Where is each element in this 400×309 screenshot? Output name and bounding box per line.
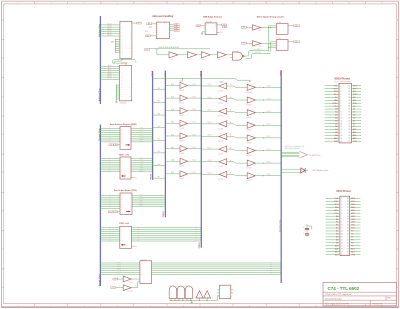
wires U7 outputs to bus B: [132, 194, 166, 207]
svg-text:A10: A10: [334, 137, 337, 140]
bundle collector chevron: [299, 151, 307, 158]
wire driver column 3 row 0 to bus D: [255, 86, 281, 88]
wire U4 lower output stub: [217, 32, 223, 34]
svg-text:NMI: NMI: [335, 207, 339, 209]
svg-text:1Y [18]: 1Y [18]: [192, 84, 197, 86]
svg-text:11: 11: [341, 228, 343, 230]
svg-text:38: 38: [348, 91, 350, 93]
value label row 7 column 2: [218, 179, 223, 181]
wires U9 inputs from Peripheral bus: [100, 262, 140, 276]
buffer gate row 6 column 1: [180, 157, 188, 164]
svg-text:35: 35: [348, 100, 350, 102]
svg-text:25: 25: [348, 129, 350, 131]
inverter G5: [201, 52, 210, 61]
value label 74LS373N under U2: [120, 102, 127, 104]
svg-text:IC15C: IC15C: [202, 59, 206, 61]
wire bus C to receiver row 1: [201, 97, 219, 99]
svg-text:PR6: PR6: [137, 238, 140, 240]
wire G7 input lower stub: [230, 57, 233, 59]
svg-text:DB2: DB2: [351, 213, 355, 215]
svg-text:18: 18: [340, 135, 342, 137]
svg-text:39: 39: [347, 201, 349, 203]
svg-text:+: +: [303, 232, 304, 234]
value label row 0 column 1: [179, 90, 184, 92]
bus C driver bus: [200, 71, 202, 248]
wire driver row 4 to bus C: [188, 134, 202, 136]
svg-text:16: 16: [340, 129, 342, 131]
svg-text:PBUS: PBUS: [150, 173, 152, 179]
svg-text:R/W: R/W: [353, 103, 357, 105]
svg-text:74LS04: 74LS04: [128, 282, 133, 284]
net label 6510 Data Bus vertical: [278, 219, 281, 232]
svg-text:33: 33: [347, 219, 349, 221]
wire PHI2 branch stub: [182, 79, 184, 81]
svg-text:P5 [16]: P5 [16]: [117, 271, 122, 273]
buffer gate row 4 column 1: [180, 132, 188, 139]
svg-text:6510 Data Bus: 6510 Data Bus: [278, 219, 281, 232]
IC U9 name label: [141, 259, 147, 261]
wire U8 enable stub with label: [131, 246, 137, 248]
svg-text:SO: SO: [353, 91, 356, 93]
svg-text:38: 38: [347, 204, 349, 206]
svg-text:Periph. Port: Periph. Port: [98, 274, 101, 286]
svg-text:21: 21: [347, 254, 349, 256]
svg-text:D0 [30]: D0 [30]: [266, 86, 271, 88]
section title DDR IO: [119, 154, 129, 157]
bus Peripheral BUS left segment: [99, 125, 101, 287]
clock arrow symbol U7: [126, 210, 130, 212]
wire receiver row 1 to driver column 3: [227, 96, 248, 100]
wire G8 output to U9: [131, 278, 140, 280]
wire bus C to receiver row 3: [201, 122, 219, 124]
value label row 6 column 1: [179, 166, 184, 168]
IC X6500 pinout body: [339, 83, 352, 143]
svg-text:25: 25: [347, 242, 349, 244]
wire bus C to receiver row 5: [201, 147, 219, 149]
wire L1 output to label: [288, 25, 293, 27]
svg-text:C: C: [277, 45, 278, 47]
wire vertical clock feed 2: [269, 42, 277, 52]
svg-text:A1: A1: [336, 218, 338, 221]
value label row 3 column 3: [246, 130, 251, 132]
svg-text:+: +: [303, 227, 304, 229]
svg-text:A6: A6: [336, 233, 338, 236]
label box AEC with wire to U3: [147, 22, 157, 25]
svg-text:74LS17N: 74LS17N: [218, 103, 223, 105]
wire bus B to driver row 1: [165, 95, 180, 98]
net label PHI2: [180, 81, 184, 83]
section title PDR IO: [119, 222, 129, 225]
wire bus C to receiver row 2: [201, 109, 219, 111]
value label row 2 column 1: [179, 115, 184, 117]
label box WR1 output: [293, 25, 299, 27]
svg-text:8B [10]: 8B [10]: [207, 173, 212, 175]
svg-text:OUT: OUT: [234, 290, 237, 292]
inverter G4: [188, 52, 197, 61]
svg-text:A8: A8: [335, 131, 337, 134]
svg-text:R/W: R/W: [351, 204, 355, 206]
buffer gate row 7 column 1: [180, 170, 188, 177]
driver gate row 7 column 3: [247, 172, 255, 179]
svg-text:10: 10: [340, 112, 342, 114]
svg-text:74LS17N: 74LS17N: [218, 128, 223, 130]
svg-text:9: 9: [282, 3, 283, 5]
wire receiver row 5 to driver column 3: [227, 146, 248, 150]
node column U2 tie-offs: [116, 85, 120, 100]
wire G9 output jog to U9: [131, 282, 140, 288]
ground symbol below U2: [115, 99, 117, 103]
svg-text:C74 - TTL 6502: C74 - TTL 6502: [328, 286, 360, 291]
svg-text:A12: A12: [353, 137, 356, 140]
svg-text:5: 5: [150, 3, 151, 5]
wire driver row 2 to bus C: [188, 109, 202, 111]
svg-text:16: 16: [341, 242, 343, 244]
buffer gate G1 write timing: [252, 25, 261, 32]
svg-text:DDR0: DDR0: [140, 157, 144, 159]
svg-text:1 2: 1 2: [170, 284, 172, 286]
bus C top label: [201, 70, 203, 76]
net label clock wire green: [159, 46, 180, 49]
svg-text:Port Output Status (POS): Port Output Status (POS): [114, 189, 137, 192]
wire bus B to driver row 0: [165, 83, 180, 86]
wire driver row 3 to bus C: [188, 122, 202, 124]
svg-text:3 4: 3 4: [178, 284, 180, 286]
value label row 3 column 1: [179, 128, 184, 130]
svg-text:22: 22: [347, 251, 349, 253]
section title 6500 Pinout: [335, 77, 351, 81]
pin label R/W U3: [145, 31, 149, 33]
svg-text:A9: A9: [336, 241, 338, 244]
svg-text:POS3: POS3: [139, 200, 143, 202]
svg-text:W1: W1: [110, 211, 112, 213]
wires U6 left from Peripheral bus: [100, 157, 120, 172]
net label Address Bus vertical: [98, 23, 101, 37]
svg-text:D: D: [277, 26, 278, 28]
frame bottom emphasis line: [2, 306, 399, 308]
svg-text:24: 24: [348, 132, 350, 134]
svg-text:D6 [24]: D6 [24]: [266, 161, 271, 163]
clock arrow symbol U6 left: [121, 175, 125, 177]
svg-text:P3 [14]: P3 [14]: [117, 267, 122, 269]
svg-text:19: 19: [340, 138, 342, 140]
svg-text:TITLE: C64 in TTL chips form: TITLE: C64 in TTL chips form: [325, 294, 351, 296]
svg-text:DDR6: DDR6: [140, 168, 144, 170]
svg-text:20: 20: [341, 254, 343, 256]
net label green clock net 1: [254, 48, 262, 51]
svg-text:74LS17N: 74LS17N: [218, 91, 223, 93]
pin labels 6510 left: [334, 198, 339, 256]
svg-text:PH: PH: [115, 144, 117, 146]
svg-text:RDY: RDY: [138, 23, 141, 25]
svg-text:PH2: PH2: [146, 49, 149, 51]
svg-text:26: 26: [348, 126, 350, 128]
buffer gate row 1 column 1: [180, 94, 188, 101]
buffer gate row 0 column 1: [180, 82, 188, 89]
svg-text:6B [12]: 6B [12]: [207, 147, 212, 149]
wire G5 to G6: [210, 54, 217, 56]
value label row 1 column 1: [179, 103, 184, 105]
svg-text:37: 37: [348, 94, 350, 96]
wires 6500 pinout right pin stubs: [352, 86, 362, 141]
receiver gate row 1 column 2: [219, 95, 227, 102]
svg-text:74LS04N: 74LS04N: [246, 92, 251, 94]
wires U10 right pins: [231, 290, 237, 293]
wire bus A to bus B row 7: [152, 175, 165, 178]
svg-text:IRQ: IRQ: [335, 204, 339, 206]
svg-text:39: 39: [348, 88, 350, 90]
wire bus B to driver row 2: [165, 108, 180, 111]
wire second feed to vertical pair: [246, 54, 271, 59]
svg-text:10: 10: [315, 3, 317, 5]
svg-text:12: 12: [340, 117, 342, 119]
svg-text:DB5: DB5: [351, 222, 355, 224]
svg-text:GND: GND: [111, 42, 114, 44]
svg-text:O: O: [229, 288, 230, 290]
capacitor C2 with wires: [303, 230, 309, 237]
wire bus A to bus B row 1: [152, 100, 165, 103]
buffer gate G2 write timing: [252, 41, 261, 48]
svg-text:Date: 2013-03-06 4:51 PM: Date: 2013-03-06 4:51 PM: [325, 303, 349, 306]
bus D top label: [281, 69, 283, 76]
wires U5 inputs from Peripheral bus: [100, 128, 120, 142]
driver gate row 5 column 3: [247, 146, 255, 153]
svg-text:7: 7: [216, 306, 217, 308]
value label row 4 column 2: [218, 141, 223, 143]
wire driver column 3 row 2 to bus D: [255, 111, 281, 113]
buffer gate G9 enable: [123, 284, 131, 291]
bus B bottom label: [163, 211, 165, 217]
svg-text:3B [15]: 3B [15]: [207, 109, 212, 111]
svg-text:PBUS: PBUS: [163, 211, 165, 217]
buffer gate G8 enable: [123, 275, 131, 282]
svg-text:5: 5: [150, 306, 151, 308]
receiver gate row 3 column 2: [219, 120, 227, 127]
svg-text:74LS07N: 74LS07N: [179, 166, 184, 168]
inverter G6: [217, 52, 226, 61]
wire L2 output to label: [288, 41, 293, 43]
svg-text:PBUS: PBUS: [152, 70, 154, 76]
svg-text:POS1: POS1: [139, 196, 143, 198]
svg-text:IC14C: IC14C: [258, 30, 262, 32]
wire G2 output to latch L2: [261, 43, 276, 44]
svg-text:SYNC: SYNC: [332, 103, 338, 105]
pin labels 6510 right: [351, 198, 356, 256]
svg-text:27: 27: [348, 123, 350, 125]
svg-text:A7: A7: [335, 128, 337, 131]
wire bus A to bus B row 2: [152, 112, 165, 115]
wire driver row 0 to bus C: [188, 84, 202, 86]
svg-text:D3 [27]: D3 [27]: [266, 124, 271, 126]
label box G9 input with wire: [111, 287, 124, 289]
svg-text:A9: A9: [335, 134, 337, 137]
wire drop to inverter chain: [157, 49, 169, 55]
section title Port Output Status POS: [114, 189, 137, 192]
svg-text:9: 9: [282, 306, 283, 308]
driver gate row 4 column 3: [247, 134, 255, 141]
svg-text:74LS04N: 74LS04N: [246, 117, 251, 119]
svg-text:NMI: NMI: [334, 100, 338, 102]
svg-text:5 6: 5 6: [186, 284, 188, 286]
svg-text:PR5: PR5: [137, 236, 140, 238]
wires 6500 pinout left pin stubs: [325, 86, 340, 141]
svg-text:PBUS: PBUS: [165, 70, 167, 76]
value label G9: [128, 291, 133, 293]
svg-text:A11: A11: [334, 140, 337, 143]
IC U4 name label: [206, 21, 213, 23]
svg-text:DB7: DB7: [351, 228, 355, 230]
svg-text:7: 7: [216, 3, 217, 5]
svg-text:6: 6: [183, 3, 184, 5]
svg-text:10: 10: [341, 225, 343, 227]
svg-text:A0: A0: [335, 108, 337, 111]
svg-text:74LS373N: 74LS373N: [121, 63, 128, 65]
wire G4 to G5: [197, 54, 202, 56]
bus A internal data bus: [152, 71, 154, 180]
receiver gate row 5 column 2: [219, 145, 227, 152]
svg-text:IC16B: IC16B: [234, 62, 238, 64]
svg-text:IRQ: IRQ: [334, 94, 338, 96]
svg-text:D6: D6: [353, 123, 355, 125]
label box W1 input with wire to G1: [242, 26, 253, 28]
svg-text:4Y [15]: 4Y [15]: [192, 122, 197, 124]
IC U7 port output register: [120, 193, 132, 215]
pin stub marks near row1: [220, 81, 251, 83]
svg-text:6500 Pinout: 6500 Pinout: [335, 77, 351, 81]
pin header P1 dome: [169, 284, 177, 298]
svg-text:P6 [17]: P6 [17]: [117, 273, 122, 275]
svg-text:A11: A11: [335, 247, 338, 250]
wires IC U1 inputs from Address Bus: [100, 22, 120, 36]
title row Document Number: [325, 297, 343, 300]
svg-text:Q: Q: [286, 42, 287, 44]
wires U7 inputs from Peripheral bus: [100, 194, 120, 209]
IC U10 oscillator: [219, 285, 231, 299]
wire bus A to bus B row 3: [152, 125, 165, 128]
svg-text:74LS17N: 74LS17N: [218, 179, 223, 181]
svg-text:28: 28: [348, 120, 350, 122]
svg-text:74LS04N: 74LS04N: [246, 142, 251, 144]
wire driver row 6 to bus C: [188, 160, 202, 162]
svg-text:DB1: DB1: [351, 210, 355, 212]
IC L1 timing latch upper: [276, 21, 288, 34]
IC U4 NMI edge detector flip-flop: [205, 23, 217, 35]
svg-text:74LS04N: 74LS04N: [246, 155, 251, 157]
svg-text:PR4: PR4: [137, 234, 140, 236]
svg-text:74LS07N: 74LS07N: [179, 178, 184, 180]
title row TITLE: [325, 294, 351, 296]
svg-text:31: 31: [347, 225, 349, 227]
svg-text:DDR4: DDR4: [140, 135, 144, 137]
svg-text:74LS17N: 74LS17N: [218, 141, 223, 143]
svg-text:8: 8: [249, 3, 250, 5]
svg-text:PR3: PR3: [137, 232, 140, 234]
wires 6510 pinout left pin stubs: [326, 198, 340, 254]
node column U1 tie-offs: [115, 39, 120, 53]
label PWT INA drain: [312, 169, 328, 172]
svg-text:VSS: VSS: [351, 254, 356, 256]
svg-text:Data direction Register (DDR): Data direction Register (DDR): [110, 123, 137, 126]
frame row ticks left and right: [2, 39, 399, 268]
svg-text:C: C: [206, 32, 207, 34]
label box NMI2 output: [223, 26, 227, 28]
svg-text:P5: P5: [351, 245, 353, 247]
svg-text:Q: Q: [215, 25, 216, 27]
svg-text:17: 17: [340, 132, 342, 134]
receiver gate row 6 column 2: [219, 158, 227, 165]
svg-text:36: 36: [348, 97, 350, 99]
svg-text:A15: A15: [353, 128, 356, 131]
bus D 6510 data bus: [280, 71, 282, 283]
svg-text:5Y [14]: 5Y [14]: [192, 134, 197, 136]
wire U1 output to label: [132, 22, 137, 24]
svg-text:RDY: RDY: [334, 201, 339, 203]
labels U5 input wires: [109, 127, 111, 142]
svg-text:Address Bus: Address Bus: [98, 88, 101, 102]
svg-text:37: 37: [347, 207, 349, 209]
wire bus C to receiver row 6: [201, 160, 219, 162]
buffer gate row 2 column 1: [180, 107, 188, 114]
net label Peripheral Port vertical bottom: [98, 274, 101, 286]
svg-text:REV:: REV:: [387, 298, 392, 300]
svg-text:12: 12: [341, 231, 343, 233]
svg-text:DDR7: DDR7: [140, 170, 144, 172]
svg-text:11: 11: [340, 115, 342, 117]
svg-text:4: 4: [117, 306, 118, 308]
svg-text:29: 29: [348, 117, 350, 119]
title text C74 TTL 6502: [328, 286, 360, 291]
svg-text:74LS07N: 74LS07N: [179, 153, 184, 155]
svg-text:D2 [28]: D2 [28]: [266, 111, 271, 113]
svg-text:D7 [23]: D7 [23]: [266, 174, 271, 176]
svg-text:DDR -> I/O: DDR -> I/O: [119, 154, 129, 157]
wires 6510 pinout right pin stubs: [350, 198, 361, 254]
svg-text:RD0: RD0: [134, 177, 137, 179]
wire U4 clock input: [202, 31, 205, 33]
svg-text:OE1: OE1: [114, 279, 117, 281]
wires PWT drain pair: [281, 169, 301, 173]
svg-text:PDR -> I/O: PDR -> I/O: [119, 222, 129, 225]
svg-text:D5 [25]: D5 [25]: [266, 149, 271, 151]
svg-text:30: 30: [347, 228, 349, 230]
wire receiver row 3 to driver column 3: [227, 121, 248, 125]
wire driver column 3 row 4 to bus D: [255, 136, 281, 138]
wire ground rail up to U10: [218, 296, 220, 301]
svg-text:VCC: VCC: [334, 213, 339, 215]
svg-text:14: 14: [341, 236, 343, 238]
svg-text:AEC: AEC: [334, 209, 339, 212]
svg-text:PH1: PH1: [334, 91, 338, 93]
svg-text:74LS07N: 74LS07N: [179, 115, 184, 117]
IC U1 address buffer: [120, 21, 132, 58]
svg-text:PH0: PH0: [147, 35, 150, 37]
svg-text:Document Number:: Document Number:: [325, 297, 343, 300]
wire bus C to receiver row 0: [201, 84, 219, 86]
svg-text:DDR4: DDR4: [140, 165, 144, 167]
ground rail wire bottom: [169, 299, 217, 301]
svg-text:RDY: RDY: [334, 88, 339, 90]
svg-text:2: 2: [51, 3, 52, 5]
svg-text:74LS17N: 74LS17N: [218, 166, 223, 168]
value label row 1 column 2: [218, 103, 223, 105]
svg-text:D: D: [277, 42, 278, 44]
net label GND tie U1: [111, 42, 114, 44]
wires U8 left from Peripheral bus: [100, 226, 120, 241]
svg-text:22: 22: [348, 138, 350, 140]
svg-text:P0 [11]: P0 [11]: [117, 262, 122, 264]
driver gate row 2 column 3: [247, 109, 255, 116]
wires U8 right to bus C: [131, 226, 201, 241]
label box NMIQ output: [222, 24, 227, 26]
